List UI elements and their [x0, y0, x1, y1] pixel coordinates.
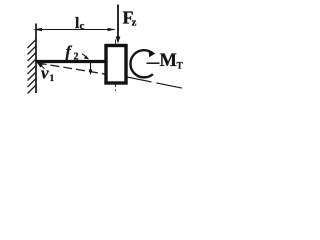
svg-text:M: M [160, 51, 177, 71]
force F_z arrow [117, 5, 119, 40]
node deflected-axis dashed line (right of hub) [126, 77, 186, 89]
torque arc M_T [130, 50, 152, 77]
svg-text:1: 1 [50, 74, 55, 84]
torque axis tick [147, 62, 160, 64]
svg-text:z: z [132, 17, 137, 29]
deflection tick f_2 below beam [90, 63, 92, 72]
leader arrow from f_2 to beam [82, 54, 86, 56]
svg-text:T: T [177, 62, 184, 72]
dimension arrow right [108, 28, 117, 31]
hub block centerline (dash-dot) [115, 40, 117, 92]
node deflected-axis dashed line (left of hub) [38, 63, 117, 76]
svg-text:2: 2 [74, 52, 79, 63]
leader arrow to wall corner for v_1 [41, 65, 45, 68]
dimension line l_c [36, 29, 115, 31]
svg-text:c: c [80, 20, 85, 32]
torque arc arrowhead [149, 50, 156, 57]
dimension arrow left [33, 28, 42, 31]
beam shaft [36, 60, 106, 63]
wall hatching [28, 40, 37, 94]
hub block rectangle [106, 46, 126, 84]
wall fixed support line [35, 24, 37, 94]
